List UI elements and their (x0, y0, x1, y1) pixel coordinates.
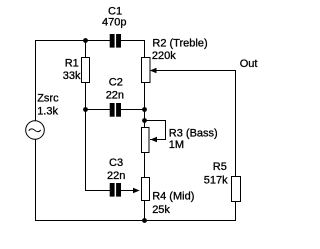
svg-text:22n: 22n (107, 170, 125, 182)
wire R4 bottom (144, 201, 146, 222)
wire top horizontal right of C1 (121, 40, 145, 42)
source Zsrc circle (26, 121, 45, 140)
arrow wiper R4 (133, 188, 140, 194)
wire R5 bottom (235, 202, 237, 222)
wire R1 bottom down to C3 row (85, 83, 87, 192)
svg-text:517k: 517k (204, 175, 228, 187)
resistor R5 body (232, 177, 241, 202)
junction node at R3 wiper tap (142, 118, 147, 123)
wire R2 top (144, 40, 146, 58)
svg-text:C2: C2 (109, 77, 123, 89)
svg-text:33k: 33k (63, 70, 81, 82)
svg-text:220k: 220k (152, 50, 176, 62)
svg-text:Out: Out (240, 58, 258, 70)
wire bottom horizontal (35, 220, 236, 222)
wire C3 row left (85, 190, 110, 192)
capacitor C1 plates (110, 34, 115, 48)
svg-text:1M: 1M (169, 139, 184, 151)
wire R1 top (85, 40, 87, 58)
wire R2 bottom to R3 top (144, 83, 146, 128)
svg-text:Zsrc: Zsrc (37, 93, 59, 105)
arrow wiper R2 (150, 68, 157, 74)
wire R3 bottom to R4 top (144, 153, 146, 178)
wire C3 row right to R4 arrow (121, 190, 134, 192)
svg-text:C1: C1 (108, 6, 122, 18)
wire R3 wiper loop (145, 121, 166, 140)
svg-text:470p: 470p (102, 17, 126, 29)
potentiometer R3 body (142, 128, 150, 153)
sine wave inside source (29, 129, 41, 132)
svg-text:25k: 25k (152, 204, 170, 216)
svg-text:R3 (Bass): R3 (Bass) (169, 128, 218, 140)
svg-text:R1: R1 (65, 58, 79, 70)
wire R2 wiper horizontal to Out (156, 70, 236, 72)
svg-text:1.3k: 1.3k (37, 106, 58, 118)
svg-text:R2 (Treble): R2 (Treble) (152, 37, 207, 49)
wire left vertical lower (35, 140, 37, 222)
wire Out vertical to R5 (235, 70, 237, 177)
capacitor C2 plates (110, 103, 115, 117)
junction node at R1/C2 (83, 107, 88, 112)
resistor R1 body (82, 58, 90, 83)
junction node at R4 bottom (142, 218, 147, 223)
wire C2 row left (85, 109, 110, 111)
svg-text:C3: C3 (109, 157, 123, 169)
wire top horizontal left of C1 (35, 40, 110, 42)
junction node at R1 top (83, 38, 88, 43)
arrow wiper R3 (150, 137, 157, 143)
capacitor C3 plates (110, 183, 115, 197)
junction node at C2/R2 column (142, 107, 147, 112)
wire left vertical upper (35, 40, 37, 121)
potentiometer R2 body (142, 58, 151, 83)
potentiometer R4 body (142, 178, 150, 201)
svg-text:22n: 22n (106, 90, 124, 102)
svg-text:R5: R5 (213, 161, 227, 173)
wire C2 row right (121, 109, 145, 111)
svg-text:R4 (Mid): R4 (Mid) (152, 191, 194, 203)
